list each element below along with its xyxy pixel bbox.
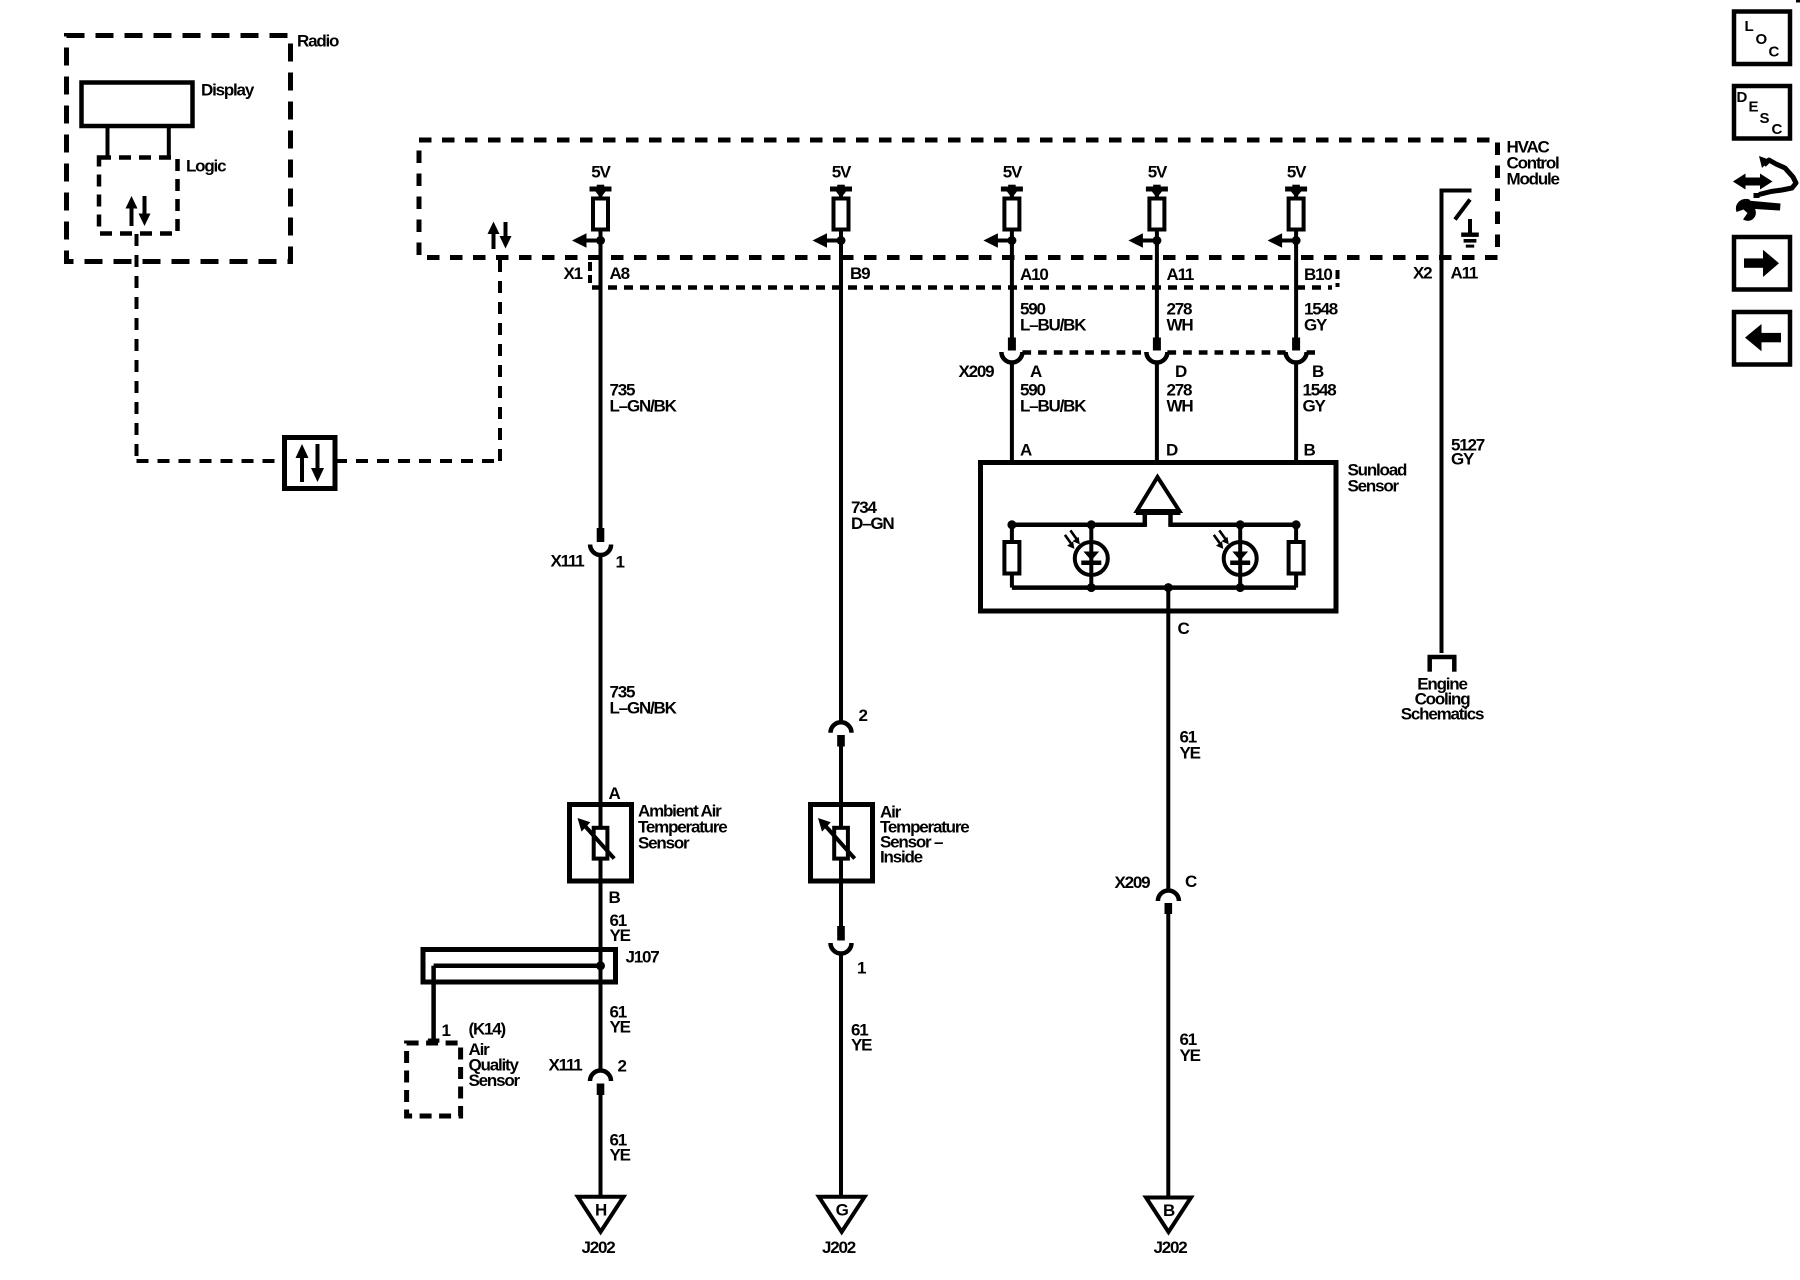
next page arrow icon (1734, 237, 1790, 290)
resistor sunload right (1289, 542, 1304, 574)
logic up arrow (130, 206, 134, 226)
node J107 junction (596, 961, 605, 970)
svg-text:D: D (1737, 89, 1748, 106)
svg-text:X111: X111 (551, 552, 585, 571)
splice pack J107 box (423, 950, 616, 983)
wire col4 X209 to sunload (1155, 362, 1159, 465)
ambient air temperature sensor box (570, 805, 632, 882)
svg-text:Sensor: Sensor (1348, 477, 1400, 496)
svg-text:L–BU/BK: L–BU/BK (1020, 397, 1087, 416)
svg-text:D–GN: D–GN (851, 514, 894, 533)
5V supply col4 (1146, 163, 1168, 200)
svg-text:YE: YE (1180, 1046, 1201, 1065)
svg-text:Schematics: Schematics (1401, 705, 1484, 724)
svg-text:A: A (1020, 441, 1032, 460)
ground switch branch wire vertical (1440, 189, 1444, 654)
photodiode PD2 (1214, 525, 1257, 588)
connector col2-2 terminal pin (837, 735, 845, 747)
wire col3 resistor to junction (1010, 230, 1014, 247)
node top bus B (1292, 520, 1301, 529)
svg-text:O: O (1756, 31, 1768, 48)
connector X209-A socket (1001, 352, 1022, 363)
svg-text:1: 1 (442, 1021, 451, 1040)
wire col2 to G202 (839, 953, 843, 1198)
wire X209-C to G202 (1166, 914, 1170, 1198)
wire display to logic lead right (167, 126, 171, 159)
wire C sunload to X209 (1166, 588, 1170, 889)
svg-text:YE: YE (610, 926, 631, 945)
svg-text:D: D (1166, 441, 1178, 460)
hvac serial up arrow (492, 232, 496, 249)
svg-text:B: B (1163, 1201, 1175, 1220)
node bottom bus PD1 (1087, 583, 1096, 592)
serial data interface box (285, 438, 336, 489)
svg-text:C: C (1772, 121, 1783, 138)
svg-text:1: 1 (857, 959, 866, 978)
page corner artifact (1796, 0, 1800, 3)
ground switch branch wire horizontal (1440, 189, 1472, 193)
connector X111-2 socket (590, 1071, 611, 1082)
wire col5 down to X209 (1294, 241, 1298, 340)
svg-text:Radio: Radio (297, 32, 339, 51)
svg-text:A: A (609, 784, 621, 803)
svg-text:5V: 5V (1148, 163, 1168, 182)
svg-text:A8: A8 (610, 264, 630, 283)
photodiode PD1 (1065, 525, 1108, 588)
connector X111-2 terminal pin (597, 1084, 605, 1096)
node top bus PD2 (1236, 520, 1245, 529)
svg-text:5V: 5V (832, 163, 852, 182)
wire connector to inside sensor (839, 747, 843, 807)
node col1 junction (596, 236, 605, 245)
X1 connector separator dash (588, 262, 592, 283)
svg-text:2: 2 (618, 1057, 627, 1076)
svg-text:GY: GY (1303, 397, 1327, 416)
wire left resistor to bottom bus (1010, 574, 1014, 588)
svg-text:X209: X209 (959, 362, 995, 381)
svg-text:YE: YE (610, 1018, 631, 1037)
wire X111-1 to ambient sensor (599, 554, 603, 806)
svg-text:J202: J202 (822, 1238, 856, 1257)
connector X111-1 socket (590, 545, 611, 556)
svg-text:5V: 5V (591, 163, 611, 182)
svg-text:E: E (1749, 99, 1759, 116)
wire col4 down to X209 (1155, 241, 1159, 340)
top bus right segment (1171, 523, 1297, 528)
svg-text:Module: Module (1507, 170, 1560, 189)
connector X209-D socket (1146, 352, 1167, 363)
svg-text:J202: J202 (1154, 1238, 1188, 1257)
5V supply col1 (590, 163, 612, 200)
wire col3 down to X209 (1010, 241, 1014, 340)
svg-text:Sensor: Sensor (638, 834, 690, 853)
svg-text:B: B (1312, 362, 1324, 381)
wire X111-2 to G202 (599, 1095, 603, 1198)
svg-text:C: C (1185, 872, 1197, 891)
signal arrow col2 (826, 239, 842, 243)
schematic navigation icon (1733, 156, 1796, 221)
svg-text:X111: X111 (549, 1056, 583, 1075)
svg-text:S: S (1760, 110, 1770, 127)
node col2 junction (837, 236, 846, 245)
svg-text:WH: WH (1167, 397, 1194, 416)
svg-text:YE: YE (610, 1146, 631, 1165)
switch blade (1455, 200, 1470, 220)
connector col2-1 socket (831, 943, 852, 954)
svg-text:A: A (1030, 362, 1042, 381)
svg-text:C: C (1178, 619, 1190, 638)
resistor sunload left (1004, 542, 1019, 574)
thermistor element col1 (594, 828, 608, 859)
connector X209-A terminal pin (1008, 338, 1016, 351)
wire col3 X209 to sunload (1010, 362, 1014, 465)
svg-text:Display: Display (201, 81, 255, 100)
resistor R col3 (1004, 199, 1019, 230)
svg-text:B: B (1304, 441, 1316, 460)
svg-text:H: H (595, 1201, 607, 1220)
svg-text:X209: X209 (1115, 873, 1151, 892)
wire ambient sensor to J107 (599, 881, 603, 1070)
wire col2 down to connector (839, 241, 843, 723)
svg-text:X2: X2 (1413, 264, 1432, 283)
logic down arrow (143, 196, 147, 216)
op-amp leg left (1143, 513, 1148, 527)
svg-text:B10: B10 (1304, 265, 1332, 284)
signal arrow col1 (585, 239, 601, 243)
node top bus A (1007, 520, 1016, 529)
resistor R col2 (834, 199, 849, 230)
wire dashed serial data down from logic (135, 234, 139, 461)
air quality sensor box (407, 1043, 461, 1116)
node col4 junction (1152, 236, 1161, 245)
HVAC control module box (419, 140, 1498, 258)
svg-text:Logic: Logic (186, 157, 226, 176)
svg-text:GY: GY (1304, 316, 1328, 335)
ground triangle H (578, 1197, 624, 1232)
wire col4 resistor to junction (1155, 230, 1159, 247)
wire display to logic lead left (106, 126, 110, 159)
DESC icon box (1734, 86, 1790, 139)
wire dashed serial data horizontal right (335, 459, 500, 463)
top bus left segment (1012, 523, 1145, 528)
ground symbol (1468, 219, 1472, 233)
svg-text:1: 1 (616, 553, 625, 572)
svg-text:G: G (836, 1201, 849, 1220)
svg-text:D: D (1175, 362, 1187, 381)
svg-text:WH: WH (1167, 316, 1194, 335)
wire col5 X209 to sunload (1294, 362, 1298, 465)
wire col1 down to X111 (599, 241, 603, 530)
svg-text:J107: J107 (626, 948, 660, 967)
node top bus PD1 (1087, 520, 1096, 529)
previous page arrow icon (1734, 312, 1790, 365)
svg-text:X1: X1 (564, 264, 583, 283)
svg-text:L–GN/BK: L–GN/BK (610, 699, 678, 718)
engine cooling off-page connector (1428, 655, 1457, 660)
wire B bus to resistor (1294, 525, 1298, 543)
connector X209-D terminal pin (1153, 338, 1161, 351)
wire right resistor to bottom bus (1294, 574, 1298, 588)
svg-text:5V: 5V (1287, 163, 1307, 182)
svg-text:A10: A10 (1020, 265, 1048, 284)
thermistor element col2 (834, 828, 848, 859)
sunload sensor box (981, 463, 1337, 612)
interface up arrow (300, 456, 304, 482)
X1 connector bus right tick (1336, 270, 1340, 287)
X209 bus dotted line (1022, 350, 1146, 355)
hvac serial down arrow (504, 222, 508, 238)
svg-text:J202: J202 (582, 1238, 616, 1257)
wire inside sensor to connector 1 (839, 881, 843, 927)
LOC icon box (1734, 12, 1790, 65)
connector X209-C terminal pin (1165, 903, 1173, 914)
svg-text:L: L (1745, 18, 1754, 35)
wire dashed serial data horizontal left (137, 459, 285, 463)
op-amp leg right (1168, 513, 1173, 527)
signal arrow col3 (996, 239, 1012, 243)
display box (82, 83, 193, 127)
wire col5 resistor to junction (1294, 230, 1298, 247)
wire J107 branch down (431, 966, 436, 1039)
logic box (99, 158, 178, 234)
node bottom bus C (1164, 583, 1173, 592)
svg-text:Inside: Inside (880, 848, 923, 867)
5V supply col5 (1285, 163, 1307, 200)
resistor R col5 (1289, 199, 1304, 230)
signal arrow col5 (1281, 239, 1297, 243)
svg-text:YE: YE (1180, 744, 1201, 763)
X1 connector face dotted bus (592, 285, 1332, 290)
svg-text:YE: YE (851, 1036, 872, 1055)
svg-text:L–BU/BK: L–BU/BK (1020, 316, 1087, 335)
svg-text:A11: A11 (1451, 264, 1478, 283)
wire A bus to resistor (1010, 525, 1014, 543)
svg-text:2: 2 (859, 706, 868, 725)
svg-text:L–GN/BK: L–GN/BK (610, 397, 678, 416)
interface down arrow (316, 444, 320, 470)
5V supply col2 (830, 163, 852, 200)
svg-text:B: B (609, 888, 621, 907)
wire col2 resistor to junction (839, 230, 843, 247)
5V supply col3 (1001, 163, 1023, 200)
bottom bus (1012, 585, 1296, 590)
svg-text:5V: 5V (1003, 163, 1023, 182)
svg-text:Sensor: Sensor (469, 1071, 521, 1090)
connector X209-B terminal pin (1292, 338, 1300, 351)
signal arrow col4 (1141, 239, 1157, 243)
ground triangle B (1146, 1198, 1191, 1233)
svg-text:C: C (1769, 44, 1780, 61)
node col3 junction (1007, 236, 1016, 245)
radio module box (67, 36, 291, 262)
svg-text:A11: A11 (1167, 265, 1194, 284)
connector col2-2 socket (831, 722, 852, 733)
svg-text:GY: GY (1451, 450, 1475, 469)
node bottom bus PD2 (1236, 583, 1245, 592)
resistor R col1 (593, 199, 608, 230)
connector col2-1 terminal pin (837, 926, 845, 941)
ground triangle G (819, 1197, 865, 1232)
op-amp buffer triangle (1137, 477, 1180, 511)
resistor R col4 (1149, 199, 1164, 230)
connector X209-B socket (1286, 352, 1307, 363)
wire col1 resistor to junction (599, 230, 603, 247)
air temperature sensor inside box (811, 805, 873, 882)
svg-text:(K14): (K14) (469, 1020, 506, 1039)
node col5 junction (1292, 236, 1301, 245)
air quality sensor terminal bar (428, 1039, 440, 1043)
connector X111-1 terminal pin (597, 528, 605, 542)
svg-text:B9: B9 (850, 264, 870, 283)
wire dashed serial data up to hvac (498, 258, 502, 461)
J107 internal branch (434, 964, 601, 969)
connector X209-C socket (1158, 891, 1179, 902)
